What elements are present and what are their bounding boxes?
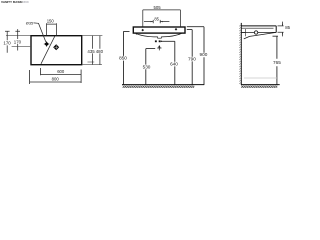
basin top (side) (241, 25, 276, 27)
dim 85 side (278, 22, 284, 37)
dim 800 (30, 70, 82, 85)
svg-text:170: 170 (3, 41, 11, 46)
svg-text:600: 600 (57, 69, 65, 74)
svg-text:150: 150 (47, 19, 55, 24)
drain hole (53, 44, 59, 50)
ext line drain level (12, 45, 31, 47)
ext line right top (82, 35, 102, 37)
svg-text:800: 800 (52, 76, 60, 81)
dim 850 (124, 31, 130, 85)
svg-text:Ø35: Ø35 (26, 21, 33, 26)
front edge (275, 26, 277, 33)
floor line side (241, 84, 280, 86)
basin outline (plan) (31, 36, 82, 65)
svg-text:85: 85 (285, 25, 290, 30)
dim 900 (187, 27, 204, 85)
dim 435 (92, 36, 94, 65)
wall line (240, 23, 242, 85)
dim 530 (146, 49, 155, 85)
tick 435 (88, 61, 95, 63)
underside slope (244, 32, 276, 39)
svg-text:850: 850 (119, 56, 127, 61)
underside curve (136, 33, 182, 37)
svg-text:85: 85 (154, 17, 159, 22)
floor hatch center (123, 85, 195, 88)
side wall ticks (136, 33, 179, 34)
floor line center (122, 84, 204, 86)
tap hole mark (44, 42, 49, 47)
svg-text:170: 170 (14, 39, 22, 44)
svg-text:900: 900 (200, 52, 208, 57)
dim 790 (187, 30, 192, 85)
waste squares (155, 40, 157, 42)
svg-text:530: 530 (143, 65, 151, 70)
svg-text:VANITY BASIN 800: VANITY BASIN 800 (1, 0, 29, 4)
leader O35 (34, 23, 46, 42)
furniture outline (faint) (244, 77, 277, 79)
dim 170 inner (15, 29, 20, 50)
basin outline (front) (133, 27, 185, 33)
basin bottom line (242, 31, 277, 33)
diagonal line (41, 36, 55, 64)
dim 640 (162, 41, 175, 85)
svg-text:640: 640 (170, 62, 178, 67)
fixing hole left (141, 29, 144, 32)
dim 765 (273, 36, 279, 85)
dim 480 (99, 36, 101, 65)
arrow to waste (158, 45, 160, 47)
svg-text:765: 765 (273, 60, 281, 65)
ext line right bottom (82, 64, 102, 66)
floor hatch side (241, 85, 277, 88)
dim 505 (143, 10, 181, 27)
svg-text:435: 435 (87, 49, 95, 54)
rim inner line (242, 27, 274, 29)
dim 150 (47, 23, 57, 35)
bracket (241, 29, 245, 36)
wall hatch (239, 25, 241, 84)
fixing hole right (175, 28, 178, 31)
dim 600 (41, 68, 82, 75)
trap circle (254, 31, 257, 34)
ext line left top (6, 34, 31, 36)
svg-text:790: 790 (188, 57, 196, 62)
dim 170 left (5, 31, 10, 53)
svg-text:480: 480 (96, 49, 104, 54)
svg-text:505: 505 (154, 5, 162, 10)
drain boss (158, 37, 162, 39)
